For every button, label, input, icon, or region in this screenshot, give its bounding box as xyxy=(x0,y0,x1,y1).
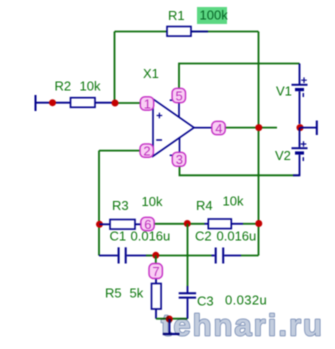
wire left lower vertical xyxy=(98,151,100,256)
wire right vertical output bus xyxy=(258,32,260,256)
junction dot output bus xyxy=(255,124,262,131)
capacitor C3 xyxy=(179,286,196,319)
pin5 stub mark xyxy=(170,99,174,101)
resistor R2 xyxy=(71,98,114,108)
resistor R5 xyxy=(152,279,162,319)
svg-text:2: 2 xyxy=(143,143,150,158)
svg-text:R1: R1 xyxy=(168,8,185,23)
mid terminal xyxy=(300,121,317,136)
svg-text:V1: V1 xyxy=(276,84,292,99)
svg-text:5: 5 xyxy=(176,88,183,103)
junction dot R3-R4-C3 xyxy=(184,220,191,227)
svg-text:R3: R3 xyxy=(112,198,129,213)
wire pin5 to V+ rail xyxy=(179,64,300,96)
node 7 xyxy=(149,264,162,279)
svg-text:5k: 5k xyxy=(130,286,144,301)
pin 3 xyxy=(172,152,185,167)
wire input lead xyxy=(36,102,71,104)
pin 5 xyxy=(172,88,185,103)
resistor R1 xyxy=(167,27,208,37)
ground xyxy=(163,319,180,334)
wire left vertical from R1 to input node xyxy=(114,32,116,104)
svg-text:1: 1 xyxy=(144,96,151,111)
wire output to bus xyxy=(225,127,277,129)
minus input mark xyxy=(156,139,162,141)
wire node7 drop xyxy=(155,256,157,265)
junction dot ground xyxy=(166,316,173,323)
wire input node to pin1 xyxy=(113,102,141,104)
resistor R3 xyxy=(100,220,142,230)
svg-text:C3: C3 xyxy=(197,294,214,309)
wire pin3 to V- rail xyxy=(180,166,300,175)
pin5 lead xyxy=(178,95,180,117)
pin 1 xyxy=(140,96,153,111)
svg-text:10k: 10k xyxy=(223,194,244,209)
svg-text:4: 4 xyxy=(215,121,222,136)
wire bottom between R5 and C3 xyxy=(156,318,188,320)
svg-text:C2: C2 xyxy=(195,229,212,244)
svg-text:V2: V2 xyxy=(275,148,291,163)
svg-text:R4: R4 xyxy=(196,198,213,213)
svg-text:7: 7 xyxy=(152,264,159,279)
svg-text:R2: R2 xyxy=(55,79,72,94)
wire pin2 to left vertical xyxy=(99,150,141,152)
wire R4 to output bus xyxy=(243,223,259,225)
resistor R4 xyxy=(205,219,244,229)
svg-text:tehnari.ru: tehnari.ru xyxy=(161,308,324,343)
input terminal xyxy=(35,95,37,111)
plus input mark xyxy=(157,113,163,119)
node junction dot at input xyxy=(49,99,56,106)
op-amp U:X1 triangle xyxy=(153,99,194,156)
svg-text:0.032u: 0.032u xyxy=(225,293,267,308)
svg-text:C1: C1 xyxy=(110,229,127,244)
svg-text:X1: X1 xyxy=(143,66,159,81)
svg-text:6: 6 xyxy=(144,217,151,232)
battery V2 xyxy=(292,128,308,176)
wire top feedback from left node to output node xyxy=(115,31,259,33)
svg-text:10k: 10k xyxy=(142,194,163,209)
junction dot R4 output xyxy=(255,220,262,227)
wire C3 column xyxy=(187,224,189,286)
svg-text:R5: R5 xyxy=(105,286,122,301)
pin 2 xyxy=(140,143,153,158)
battery V1 xyxy=(292,64,308,125)
junction dot R3 left xyxy=(96,221,103,228)
pin 4 xyxy=(212,121,225,136)
wire C1 to C2 xyxy=(146,255,212,257)
pin4 output lead xyxy=(193,127,212,129)
wire C2 to output bus xyxy=(241,255,259,257)
svg-text:100k: 100k xyxy=(200,8,229,23)
wire junction to R4 xyxy=(188,223,205,225)
capacitor C2 xyxy=(212,248,242,264)
node 6 xyxy=(141,217,154,232)
svg-text:10k: 10k xyxy=(80,79,101,94)
capacitor C1 xyxy=(99,247,152,263)
svg-text:3: 3 xyxy=(176,152,183,167)
value 100k highlighted xyxy=(197,7,228,24)
node junction dot input-feedback xyxy=(112,100,119,107)
svg-text:0.016u: 0.016u xyxy=(217,229,257,244)
junction dot node7 tap xyxy=(152,252,159,259)
pin3 stub mark xyxy=(170,154,174,156)
junction dot battery mid xyxy=(297,124,304,131)
pin3 lead xyxy=(179,138,181,153)
wire node6 to junction xyxy=(154,223,188,225)
